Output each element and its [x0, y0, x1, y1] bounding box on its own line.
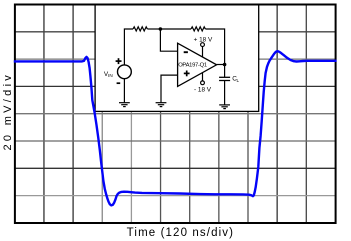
positive supply pin +18V: [194, 36, 213, 57]
wire junction to R2: [160, 28, 191, 30]
svg-text:Time (120 ns/div): Time (120 ns/div): [127, 227, 234, 239]
VIN plus sign: [116, 58, 122, 64]
wire op-amp output to node: [217, 64, 225, 66]
source VIN: [118, 65, 132, 79]
wire VIN top to R1: [124, 29, 133, 65]
resistor R2: [191, 27, 205, 31]
negative supply pin -18V: [194, 73, 212, 94]
svg-text:20 mV/div: 20 mV/div: [2, 72, 14, 151]
ground (non-inverting input): [156, 103, 167, 107]
wire junction to inverting input: [160, 29, 177, 51]
wire R2 to feedback corner: [205, 29, 224, 65]
resistor R1: [133, 27, 147, 31]
op-amp non-inverting input symbol: [184, 71, 190, 77]
svg-text:OPA197-Q1: OPA197-Q1: [178, 62, 207, 68]
ground (VIN): [119, 103, 130, 107]
op-amp inverting input symbol: [184, 51, 188, 53]
wire non-inverting input to ground: [161, 75, 178, 103]
svg-text:L: L: [237, 78, 240, 83]
wire node to capacitor: [224, 65, 226, 78]
label CL: [232, 76, 239, 83]
wire R1 to junction: [147, 28, 160, 30]
wire VIN bottom to ground: [123, 79, 125, 103]
node output: [223, 63, 227, 67]
waveform: [14, 51, 337, 205]
capacitor CL: [219, 77, 230, 80]
op-amp U1 OPA197-Q1: [178, 43, 217, 86]
svg-text:- 18 V: - 18 V: [194, 87, 212, 94]
inset schematic box: [95, 5, 259, 112]
ground (capacitor): [219, 105, 230, 109]
label VIN: [104, 71, 113, 78]
wire capacitor to ground: [224, 81, 226, 105]
svg-text:+ 18 V: + 18 V: [194, 36, 213, 43]
node junction (feedback/input): [159, 27, 163, 31]
svg-text:IN: IN: [108, 73, 113, 78]
VIN minus sign: [117, 82, 121, 84]
schematic: [124, 27, 224, 105]
